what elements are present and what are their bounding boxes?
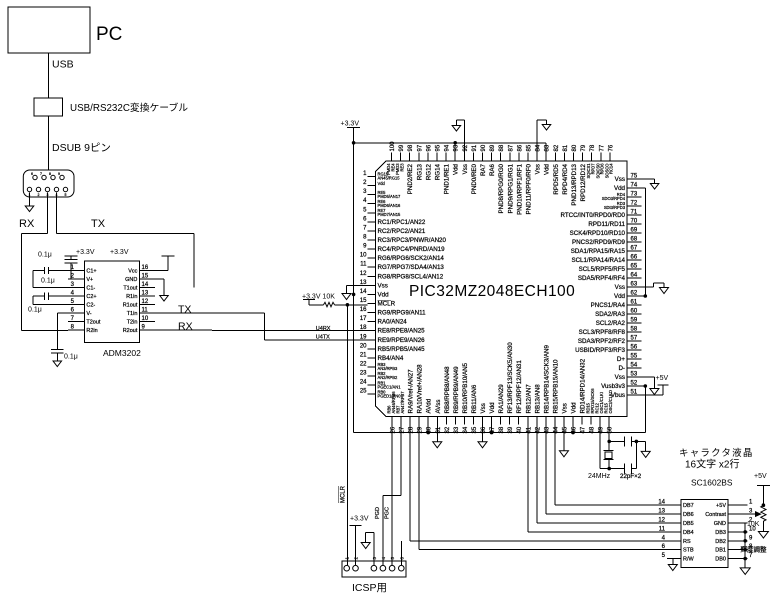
svg-text:DB6: DB6 [683,512,694,518]
svg-text:ICSP用: ICSP用 [352,582,387,594]
svg-text:RE8/RPE8/AN25: RE8/RPE8/AN25 [378,328,426,335]
svg-text:STB: STB [683,548,694,554]
svg-text:V-: V- [86,311,91,317]
svg-text:DB7: DB7 [683,503,694,509]
svg-text:PMD7/AN15: PMD7/AN15 [378,212,401,217]
svg-text:RTCC/INT0/RPD0/RD0: RTCC/INT0/RPD0/RD0 [560,212,625,219]
svg-text:DB3: DB3 [715,530,726,536]
svg-text:TX: TX [91,218,106,230]
svg-text:MCLR: MCLR [378,300,396,307]
svg-text:10: 10 [142,316,149,322]
svg-text:8: 8 [49,172,51,176]
svg-text:14: 14 [658,500,665,506]
svg-text:RB12/AN7: RB12/AN7 [525,384,532,414]
svg-text:11: 11 [360,262,367,268]
svg-text:88: 88 [499,144,505,151]
svg-text:Vusb3v3: Vusb3v3 [601,383,625,390]
svg-text:RC14: RC14 [609,163,614,174]
svg-text:U4RX: U4RX [316,326,331,332]
svg-text:15: 15 [360,298,367,304]
svg-text:21: 21 [360,352,367,358]
svg-text:12: 12 [142,299,149,305]
svg-text:67: 67 [631,246,638,252]
svg-text:PND8/RPG0/RG0: PND8/RPG0/RG0 [498,163,505,213]
svg-text:RF12/RPF12/AN31: RF12/RPF12/AN31 [516,360,523,414]
svg-text:Vdd: Vdd [489,402,496,414]
svg-text:OSC2/CLKO: OSC2/CLKO [608,390,613,413]
svg-text:85: 85 [527,144,533,151]
svg-text:RB10/RPB10/AN5: RB10/RPB10/AN5 [462,362,469,413]
svg-text:RB13/AN8: RB13/AN8 [534,384,541,414]
svg-text:PGC: PGC [384,507,390,519]
svg-text:RG9/RPG9/AN11: RG9/RPG9/AN11 [378,310,427,317]
svg-text:SCK4/RPD10/RD10: SCK4/RPD10/RD10 [570,230,626,237]
svg-text:20: 20 [360,343,367,349]
svg-text:C2+: C2+ [86,294,96,300]
svg-text:61: 61 [631,300,638,306]
svg-text:11: 11 [659,526,666,532]
svg-text:RC3/RPC3/PNWR/AN20: RC3/RPC3/PNWR/AN20 [378,237,447,244]
svg-text:24MHz: 24MHz [588,473,611,480]
svg-text:Vss: Vss [535,164,542,174]
svg-text:MCLR: MCLR [341,485,347,503]
svg-text:RB14/RPB14/SCK3/AN9: RB14/RPB14/SCK3/AN9 [543,345,550,414]
svg-text:+5V: +5V [716,503,726,509]
svg-text:PND0/RE0: PND0/RE0 [471,163,478,194]
svg-text:RS: RS [683,539,691,545]
svg-text:Vdd: Vdd [614,293,626,300]
svg-text:5: 5 [65,193,67,197]
svg-text:PGD: PGD [375,507,381,519]
svg-text:PND9/RPG1/RG1: PND9/RPG1/RG1 [507,163,514,213]
svg-text:15: 15 [142,274,149,280]
svg-text:0.1μ: 0.1μ [28,307,42,314]
svg-text:12: 12 [360,271,367,277]
svg-text:R1in: R1in [126,294,137,300]
svg-text:R1out: R1out [123,303,138,309]
svg-text:16: 16 [360,307,367,313]
svg-text:SDA3/RPF2/RF2: SDA3/RPF2/RF2 [578,338,626,345]
svg-text:AVss: AVss [435,400,442,414]
svg-text:71: 71 [631,210,638,216]
svg-text:13: 13 [142,291,149,297]
svg-text:0.1μ: 0.1μ [38,252,52,259]
svg-text:PIC32MZ2048ECH100: PIC32MZ2048ECH100 [409,283,575,300]
svg-text:62: 62 [631,291,638,297]
svg-text:23: 23 [360,371,367,377]
svg-text:Vcc: Vcc [128,269,137,275]
svg-text:Vbus: Vbus [611,392,625,399]
svg-text:D+: D+ [617,356,625,363]
svg-text:RPD5/RD5: RPD5/RD5 [553,163,560,194]
svg-text:60: 60 [631,309,638,315]
svg-text:SC1602BS: SC1602BS [691,478,733,488]
svg-text:56: 56 [631,345,638,351]
svg-text:R/W: R/W [683,557,695,563]
svg-text:87: 87 [508,144,514,151]
svg-text:22pF×2: 22pF×2 [620,473,642,480]
svg-text:SDA5/RPF4/RF4: SDA5/RPF4/RF4 [578,275,626,282]
svg-text:SCL5/RPF5/RF5: SCL5/RPF5/RF5 [579,266,626,273]
svg-text:USB: USB [52,59,74,71]
svg-text:RB8/RPB8/AN48: RB8/RPB8/AN48 [444,366,451,414]
svg-text:+3.3V: +3.3V [76,249,95,256]
svg-text:RPD11/RD11: RPD11/RD11 [588,221,625,228]
svg-text:C2-: C2- [86,303,95,309]
svg-text:Vdd: Vdd [614,185,626,192]
svg-text:PND2/RE2: PND2/RE2 [407,163,414,194]
svg-text:2: 2 [38,193,40,197]
svg-text:86: 86 [517,144,523,151]
svg-text:キャラクタ液晶: キャラクタ液晶 [679,447,754,459]
svg-text:24: 24 [360,380,367,386]
svg-text:RB4/AN4: RB4/AN4 [378,355,404,362]
svg-text:U4TX: U4TX [316,334,330,340]
svg-text:90: 90 [481,144,487,151]
svg-text:+5V: +5V [656,375,669,382]
svg-text:82: 82 [554,144,560,151]
svg-text:99: 99 [399,144,405,151]
svg-text:RE3: RE3 [399,163,404,172]
svg-text:54: 54 [631,363,638,369]
svg-text:ADM3202: ADM3202 [103,348,141,358]
svg-text:DB0: DB0 [715,557,726,563]
svg-text:RF13/RPF13/SCK5/AN30: RF13/RPF13/SCK5/AN30 [507,342,514,414]
svg-text:Vss: Vss [615,284,625,291]
svg-text:RA0/AN24: RA0/AN24 [378,319,408,326]
svg-text:PNCS1/RA4: PNCS1/RA4 [591,302,626,309]
svg-text:USB/RS232C変換ケーブル: USB/RS232C変換ケーブル [70,101,188,114]
svg-text:63: 63 [631,282,638,288]
svg-text:RA1/AN29: RA1/AN29 [498,384,505,414]
svg-text:DB1: DB1 [715,548,726,554]
svg-text:GND: GND [125,277,137,283]
svg-text:58: 58 [631,327,638,333]
svg-text:RE9/RPE9/AN26: RE9/RPE9/AN26 [378,337,426,344]
svg-text:93: 93 [454,144,460,151]
svg-text:70: 70 [631,219,638,225]
svg-text:SDA2/RA3: SDA2/RA3 [595,311,625,318]
svg-text:SDA1/RPA15/RA15: SDA1/RPA15/RA15 [571,248,626,255]
svg-text:Vdd: Vdd [378,181,386,186]
svg-text:Vss: Vss [480,403,487,413]
svg-text:64: 64 [631,273,638,279]
svg-text:PNCS2/RPD9/RD9: PNCS2/RPD9/RD9 [572,239,626,246]
svg-text:10K: 10K [747,521,760,528]
svg-text:PND11/RPF0/RF0: PND11/RPF0/RF0 [526,163,533,214]
svg-text:T1out: T1out [123,286,138,292]
svg-text:AN47/RPB7: AN47/RPB7 [400,391,405,414]
svg-text:73: 73 [631,192,638,198]
svg-text:55: 55 [631,354,638,360]
svg-text:81: 81 [563,144,569,151]
svg-text:Vdd: Vdd [571,402,578,414]
svg-text:12: 12 [658,518,665,524]
svg-text:RC2/RPC2/AN21: RC2/RPC2/AN21 [378,228,426,235]
svg-text:Vss: Vss [615,176,625,183]
svg-text:57: 57 [631,336,638,342]
svg-text:SCL3/RPF8/RF8: SCL3/RPF8/RF8 [579,329,626,336]
svg-text:SCL1/RPA14/RA14: SCL1/RPA14/RA14 [571,257,625,264]
svg-text:+3.3V: +3.3V [350,516,369,523]
svg-text:98: 98 [408,144,414,151]
svg-text:RX: RX [178,320,193,332]
svg-text:D-: D- [618,365,625,372]
svg-text:Vdd: Vdd [453,163,460,175]
svg-text:69: 69 [631,228,638,234]
svg-text:Vss: Vss [615,374,625,381]
svg-text:AVdd: AVdd [426,398,433,413]
svg-text:T2in: T2in [127,320,138,326]
svg-text:10: 10 [360,253,367,259]
svg-text:RB9/RPB9/AN49: RB9/RPB9/AN49 [453,366,460,414]
svg-text:9: 9 [58,172,60,176]
svg-text:PGED1/AN0: PGED1/AN0 [378,393,402,398]
svg-text:76: 76 [608,144,614,151]
svg-text:83: 83 [545,144,551,151]
svg-text:RG6/RPG6/SCK2/AN14: RG6/RPG6/SCK2/AN14 [378,255,445,262]
svg-text:RA9/Vref-/AN27: RA9/Vref-/AN27 [408,369,415,414]
svg-text:Vss: Vss [561,403,568,413]
svg-text:25: 25 [360,389,367,395]
svg-text:RC4/RPC4/PNRD/AN19: RC4/RPC4/PNRD/AN19 [378,246,446,253]
svg-text:T1in: T1in [127,311,138,317]
svg-text:Vss: Vss [378,282,388,289]
svg-text:SCL2/RA2: SCL2/RA2 [596,320,626,327]
svg-text:+5V: +5V [754,473,767,480]
svg-text:TX: TX [178,304,191,316]
svg-text:22: 22 [360,361,367,367]
svg-text:80: 80 [572,144,578,151]
svg-text:14: 14 [360,289,367,295]
svg-text:RG7/RPG7/SDA4/AN13: RG7/RPG7/SDA4/AN13 [378,264,445,271]
svg-text:96: 96 [426,144,432,151]
svg-text:T2out: T2out [86,320,101,326]
svg-text:RB11/AN6: RB11/AN6 [471,384,478,413]
svg-text:DSUB 9ピン: DSUB 9ピン [52,142,111,154]
svg-text:RA6: RA6 [489,163,496,176]
svg-text:7: 7 [40,172,42,176]
svg-text:R2out: R2out [123,328,138,334]
svg-text:Vdd: Vdd [378,291,390,298]
svg-text:59: 59 [631,318,638,324]
svg-text:14: 14 [142,282,149,288]
svg-text:66: 66 [631,255,638,261]
svg-text:RG13: RG13 [416,163,423,180]
svg-text:84: 84 [536,144,542,151]
svg-text:DB4: DB4 [683,530,694,536]
svg-text:RX: RX [19,218,35,230]
svg-text:89: 89 [490,144,496,151]
svg-text:RB5/RPB5/AN45: RB5/RPB5/AN45 [378,346,426,353]
svg-text:C1-: C1- [86,286,95,292]
svg-text:6: 6 [31,172,33,176]
svg-text:95: 95 [436,144,442,151]
svg-text:77: 77 [599,144,605,151]
svg-text:RG12: RG12 [425,163,432,180]
svg-text:Contrast: Contrast [705,512,726,518]
svg-text:74: 74 [631,183,638,189]
svg-text:68: 68 [631,237,638,243]
svg-text:DB2: DB2 [715,539,726,545]
svg-text:97: 97 [417,144,423,151]
svg-text:RB15/RPB15/AN10: RB15/RPB15/AN10 [552,359,559,414]
svg-text:RPD4/RD4: RPD4/RD4 [562,163,569,194]
svg-text:USBID/RPF3/RF3: USBID/RPF3/RF3 [575,347,625,354]
svg-text:C1+: C1+ [86,269,96,275]
svg-text:92: 92 [463,144,469,151]
svg-text:53: 53 [631,372,638,378]
svg-text:DB5: DB5 [683,521,694,527]
svg-text:79: 79 [581,144,587,151]
svg-text:19: 19 [360,334,367,340]
svg-text:0.1μ: 0.1μ [64,354,78,361]
svg-text:72: 72 [631,201,638,207]
svg-text:52: 52 [631,381,638,387]
svg-text:SDI3/RPD3: SDI3/RPD3 [604,205,626,210]
svg-text:RG8/RPG8/SCL4/AN12: RG8/RPG8/SCL4/AN12 [378,273,444,280]
svg-text:16文字 x2行: 16文字 x2行 [685,458,739,471]
svg-text:V+: V+ [86,277,93,283]
svg-text:51: 51 [631,390,638,396]
svg-text:Vss: Vss [462,164,469,174]
svg-text:75: 75 [631,174,638,180]
svg-text:RA7: RA7 [480,163,487,176]
svg-text:RC1/RPC1/AN22: RC1/RPC1/AN22 [378,219,426,226]
svg-text:94: 94 [445,144,451,151]
svg-text:18: 18 [360,325,367,331]
svg-text:PND10/RPF1/RF1: PND10/RPF1/RF1 [516,163,523,214]
svg-text:65: 65 [631,264,638,270]
svg-text:R2in: R2in [86,328,97,334]
svg-text:0.1μ: 0.1μ [41,278,55,285]
svg-text:16: 16 [142,265,149,271]
svg-text:+3.3V: +3.3V [341,121,360,128]
svg-text:GND: GND [714,521,726,527]
svg-text:Vdd: Vdd [544,163,551,175]
svg-text:PC: PC [96,24,122,45]
svg-text:13: 13 [658,509,665,515]
svg-text:RG14: RG14 [435,163,442,180]
svg-text:RA10/Vref+/AN28: RA10/Vref+/AN28 [417,364,424,414]
svg-text:PND1/RE1: PND1/RE1 [444,163,451,194]
svg-text:+3.3V: +3.3V [110,249,129,256]
svg-text:17: 17 [360,316,367,322]
svg-text:78: 78 [590,144,596,151]
svg-text:91: 91 [472,144,478,151]
svg-text:11: 11 [142,308,149,314]
svg-text:PND13/RPD13: PND13/RPD13 [571,163,578,205]
